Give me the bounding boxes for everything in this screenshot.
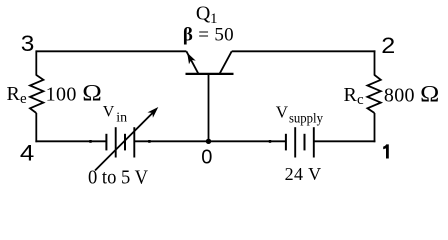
label Vin xyxy=(103,104,127,126)
node 1 label xyxy=(383,144,389,158)
wire base stem (Q1 base to node 0) xyxy=(208,74,210,141)
wire right vertical lower (node 1 side) xyxy=(374,113,376,142)
wire right vertical upper (to node 2) xyxy=(374,50,376,75)
battery Vin plate short left xyxy=(105,134,107,151)
svg-text:100 Ω: 100 Ω xyxy=(46,81,103,106)
battery Vsupply plate tall right xyxy=(313,127,315,157)
wire top-right (collector to node 2) xyxy=(232,50,376,52)
wire left vertical lower (to node 4) xyxy=(35,113,37,142)
svg-text:β = 50: β = 50 xyxy=(183,24,234,45)
resistor Rc xyxy=(367,75,380,113)
battery Vsupply plate short middle xyxy=(304,134,306,151)
svg-text:800 Ω: 800 Ω xyxy=(384,81,440,106)
battery Vsupply plate short left xyxy=(285,134,287,151)
battery Vsupply plate tall xyxy=(294,127,296,157)
junction dot node 0 xyxy=(206,139,211,144)
label 100 ohm xyxy=(46,81,103,106)
variable-source arrow through Vin xyxy=(95,107,158,171)
resistor Re xyxy=(30,75,43,113)
svg-text:3: 3 xyxy=(21,31,35,56)
label Q1 xyxy=(196,3,218,28)
wire bottom-right (Vsupply to node 1) xyxy=(314,140,376,142)
wire bottom-left (node 4 to Vin) xyxy=(35,140,106,142)
label 800 ohm xyxy=(384,81,440,106)
label 24 V xyxy=(285,164,322,184)
wire joint nub mid-left xyxy=(148,140,150,143)
svg-text:2: 2 xyxy=(381,33,395,58)
label Rc xyxy=(344,84,365,108)
svg-text:0: 0 xyxy=(201,146,212,168)
node 0 label xyxy=(201,146,212,168)
svg-text:24 V: 24 V xyxy=(285,164,322,184)
label Re xyxy=(7,83,28,107)
transistor Q1 collector xyxy=(220,51,232,74)
battery Vin plate tall right xyxy=(133,127,135,157)
transistor Q1 emitter with arrow xyxy=(186,51,198,74)
wire bottom-middle (Vin to Vsupply, through node 0) xyxy=(134,140,286,142)
svg-text:0 to 5 V: 0 to 5 V xyxy=(88,167,148,189)
battery Vin plate short middle xyxy=(124,134,126,151)
label Vsupply xyxy=(276,103,323,127)
battery Vin plate tall xyxy=(115,127,117,157)
wire joint nub left xyxy=(89,140,91,143)
node 4 label xyxy=(20,140,34,165)
wire left vertical upper (node 3 side) xyxy=(35,50,37,75)
wire joint nub mid-right xyxy=(269,140,271,143)
wire top-left (node 3 to emitter) xyxy=(36,50,186,52)
label beta = 50 xyxy=(183,24,234,45)
svg-text:4: 4 xyxy=(20,140,34,165)
node 2 label xyxy=(381,33,395,58)
transistor Q1 base bar xyxy=(186,73,234,75)
node 3 label xyxy=(21,31,35,56)
label 0 to 5 V xyxy=(88,167,148,189)
